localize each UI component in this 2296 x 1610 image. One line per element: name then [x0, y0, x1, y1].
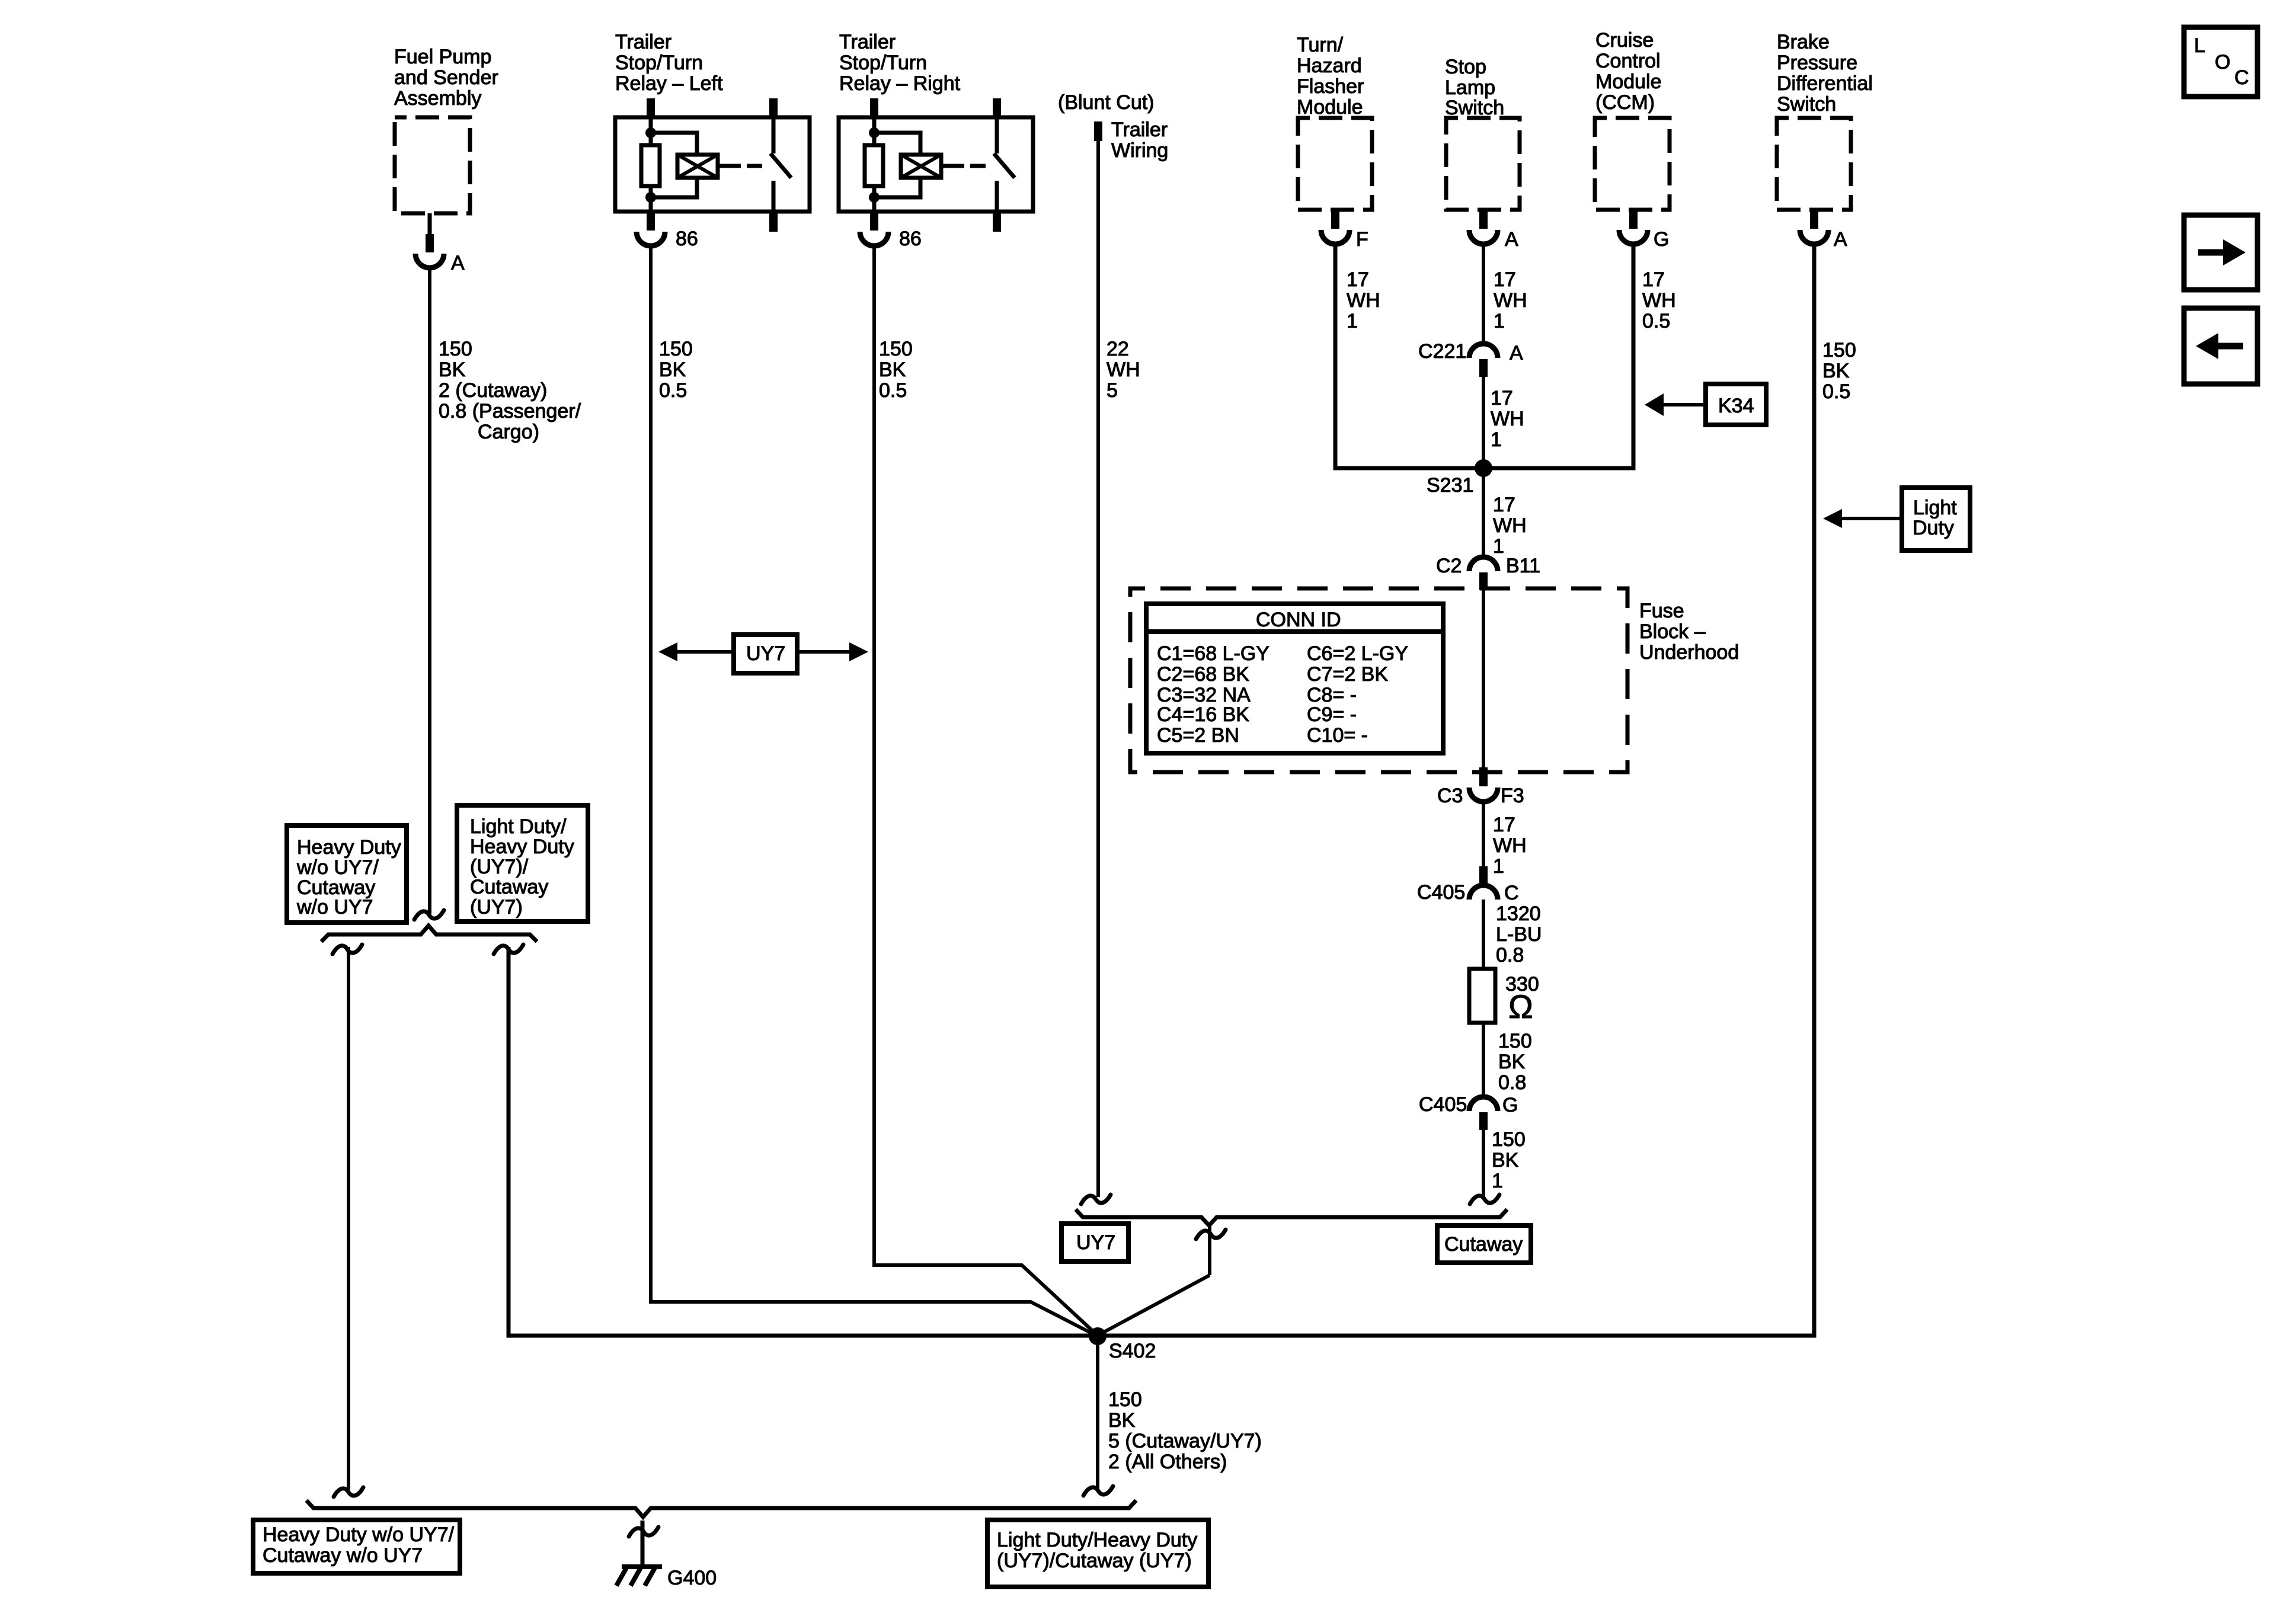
- svg-text:Stop/Turn: Stop/Turn: [839, 52, 927, 74]
- svg-text:Underhood: Underhood: [1639, 641, 1739, 664]
- svg-text:B11: B11: [1506, 555, 1540, 577]
- svg-text:1: 1: [1491, 428, 1502, 451]
- svg-text:Stop/Turn: Stop/Turn: [615, 52, 703, 74]
- svg-text:1320: 1320: [1496, 902, 1541, 925]
- svg-text:0.5: 0.5: [1642, 310, 1670, 332]
- svg-text:Differential: Differential: [1777, 72, 1873, 95]
- svg-text:5 (Cutaway/UY7): 5 (Cutaway/UY7): [1108, 1430, 1262, 1452]
- svg-text:Brake: Brake: [1777, 31, 1830, 53]
- svg-text:Control: Control: [1595, 50, 1661, 72]
- svg-text:WH: WH: [1493, 834, 1527, 857]
- svg-text:CONN ID: CONN ID: [1256, 609, 1341, 631]
- svg-text:Wiring: Wiring: [1111, 139, 1168, 162]
- svg-text:1: 1: [1492, 1170, 1503, 1192]
- svg-text:UY7: UY7: [1076, 1231, 1115, 1254]
- svg-text:0.5: 0.5: [659, 379, 687, 402]
- svg-text:G: G: [1654, 228, 1669, 251]
- svg-text:Duty: Duty: [1913, 517, 1954, 539]
- svg-text:5: 5: [1107, 379, 1118, 402]
- svg-text:(UY7)/Cutaway (UY7): (UY7)/Cutaway (UY7): [997, 1550, 1192, 1572]
- svg-text:L: L: [2194, 34, 2205, 57]
- svg-text:Module: Module: [1595, 71, 1662, 93]
- svg-text:WH: WH: [1494, 289, 1527, 312]
- svg-text:Stop: Stop: [1445, 56, 1486, 78]
- svg-text:C3: C3: [1437, 785, 1463, 807]
- svg-text:Pressure: Pressure: [1777, 52, 1857, 74]
- svg-text:O: O: [2215, 51, 2230, 73]
- svg-text:A: A: [1505, 228, 1518, 251]
- svg-text:150: 150: [1498, 1030, 1532, 1052]
- svg-text:and Sender: and Sender: [394, 66, 498, 89]
- svg-text:Lamp: Lamp: [1445, 76, 1495, 99]
- svg-text:Light: Light: [1913, 497, 1957, 519]
- svg-text:0.8: 0.8: [1496, 944, 1524, 966]
- svg-text:Hazard: Hazard: [1297, 55, 1362, 77]
- svg-text:C5=2 BN: C5=2 BN: [1157, 724, 1239, 747]
- svg-text:Flasher: Flasher: [1297, 75, 1364, 98]
- svg-text:Ω: Ω: [1508, 988, 1533, 1025]
- svg-text:WH: WH: [1642, 289, 1676, 312]
- svg-text:Fuel Pump: Fuel Pump: [394, 46, 491, 68]
- svg-text:Cargo): Cargo): [478, 421, 539, 443]
- svg-text:WH: WH: [1107, 359, 1140, 381]
- svg-text:(CCM): (CCM): [1595, 91, 1655, 114]
- svg-text:C: C: [1504, 882, 1519, 904]
- svg-text:F: F: [1356, 228, 1368, 251]
- svg-text:A: A: [1510, 342, 1523, 364]
- svg-text:C6=2 L-GY: C6=2 L-GY: [1307, 642, 1408, 665]
- svg-text:WH: WH: [1493, 514, 1527, 537]
- svg-text:C221: C221: [1418, 340, 1466, 363]
- svg-text:Trailer: Trailer: [839, 31, 896, 53]
- svg-text:17: 17: [1642, 268, 1665, 291]
- svg-text:Cruise: Cruise: [1595, 29, 1654, 52]
- svg-text:Heavy Duty: Heavy Duty: [297, 836, 401, 859]
- svg-text:BK: BK: [1492, 1149, 1519, 1172]
- svg-text:Turn/: Turn/: [1297, 34, 1344, 56]
- svg-text:Cutaway: Cutaway: [1444, 1233, 1523, 1256]
- svg-text:G400: G400: [667, 1567, 717, 1589]
- svg-text:22: 22: [1107, 338, 1129, 360]
- svg-text:2 (Cutaway): 2 (Cutaway): [439, 379, 547, 402]
- svg-text:C9= -: C9= -: [1307, 703, 1357, 726]
- svg-text:17: 17: [1494, 268, 1516, 291]
- svg-text:WH: WH: [1491, 408, 1524, 430]
- svg-text:Relay – Right: Relay – Right: [839, 72, 961, 95]
- svg-text:1: 1: [1347, 310, 1358, 332]
- svg-text:C10= -: C10= -: [1307, 724, 1368, 747]
- svg-text:Light Duty/Heavy Duty: Light Duty/Heavy Duty: [997, 1529, 1197, 1551]
- svg-text:w/o UY7/: w/o UY7/: [296, 856, 379, 879]
- svg-text:BK: BK: [439, 359, 466, 381]
- svg-text:150: 150: [439, 338, 472, 360]
- svg-text:0.8 (Passenger/: 0.8 (Passenger/: [439, 400, 581, 422]
- svg-text:Module: Module: [1297, 96, 1363, 119]
- svg-text:0.5: 0.5: [879, 379, 907, 402]
- svg-text:1: 1: [1493, 535, 1504, 558]
- svg-text:(Blunt Cut): (Blunt Cut): [1058, 91, 1155, 114]
- svg-text:(UY7): (UY7): [470, 896, 523, 918]
- svg-text:A: A: [451, 252, 465, 274]
- svg-text:Trailer: Trailer: [1111, 119, 1168, 141]
- svg-text:BK: BK: [1498, 1051, 1526, 1073]
- svg-text:150: 150: [659, 338, 693, 360]
- svg-text:17: 17: [1493, 814, 1515, 836]
- svg-text:C405: C405: [1417, 881, 1465, 904]
- svg-text:C405: C405: [1419, 1093, 1467, 1116]
- svg-text:Heavy Duty w/o UY7/: Heavy Duty w/o UY7/: [263, 1523, 455, 1546]
- svg-text:1: 1: [1494, 310, 1505, 332]
- svg-text:S402: S402: [1109, 1340, 1156, 1362]
- svg-text:Switch: Switch: [1777, 93, 1836, 116]
- svg-text:150: 150: [1492, 1128, 1526, 1151]
- svg-text:17: 17: [1491, 387, 1513, 409]
- svg-text:Relay – Left: Relay – Left: [615, 72, 723, 95]
- svg-text:S231: S231: [1427, 474, 1473, 497]
- svg-text:C: C: [2234, 66, 2249, 89]
- svg-text:C2: C2: [1436, 555, 1462, 577]
- svg-text:Block –: Block –: [1639, 620, 1706, 643]
- svg-text:BK: BK: [1822, 360, 1850, 382]
- svg-text:150: 150: [1822, 339, 1856, 361]
- svg-text:w/o UY7: w/o UY7: [296, 896, 373, 918]
- svg-text:Assembly: Assembly: [394, 87, 481, 110]
- svg-text:BK: BK: [879, 359, 906, 381]
- svg-text:A: A: [1834, 228, 1847, 251]
- svg-text:2 (All Others): 2 (All Others): [1108, 1451, 1227, 1473]
- svg-text:17: 17: [1493, 494, 1515, 516]
- svg-text:K34: K34: [1718, 395, 1754, 417]
- svg-text:Cutaway w/o UY7: Cutaway w/o UY7: [263, 1544, 423, 1567]
- svg-text:L-BU: L-BU: [1496, 923, 1542, 946]
- svg-text:0.5: 0.5: [1822, 380, 1850, 403]
- svg-text:F3: F3: [1501, 785, 1524, 807]
- svg-text:BK: BK: [659, 359, 686, 381]
- svg-text:150: 150: [879, 338, 913, 360]
- svg-text:BK: BK: [1108, 1409, 1136, 1432]
- svg-text:(UY7)/: (UY7)/: [470, 856, 529, 878]
- svg-text:C1=68 L-GY: C1=68 L-GY: [1157, 642, 1269, 665]
- svg-text:1: 1: [1493, 855, 1504, 878]
- svg-text:C4=16 BK: C4=16 BK: [1157, 703, 1249, 726]
- svg-text:Heavy Duty: Heavy Duty: [470, 836, 574, 858]
- svg-text:C2=68 BK: C2=68 BK: [1157, 663, 1249, 686]
- svg-text:Light Duty/: Light Duty/: [470, 815, 567, 838]
- svg-text:0.8: 0.8: [1498, 1071, 1526, 1094]
- svg-text:Switch: Switch: [1445, 97, 1504, 119]
- svg-text:Fuse: Fuse: [1639, 600, 1684, 622]
- svg-text:C7=2 BK: C7=2 BK: [1307, 663, 1388, 686]
- svg-text:Trailer: Trailer: [615, 31, 671, 53]
- svg-text:WH: WH: [1347, 289, 1380, 312]
- svg-text:G: G: [1502, 1094, 1518, 1116]
- svg-text:17: 17: [1347, 268, 1369, 291]
- svg-text:Cutaway: Cutaway: [470, 876, 548, 898]
- svg-text:UY7: UY7: [746, 642, 785, 665]
- svg-text:150: 150: [1108, 1388, 1142, 1411]
